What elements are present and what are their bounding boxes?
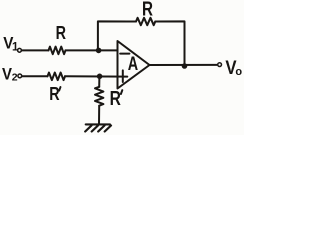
- svg-text:2: 2: [12, 71, 18, 83]
- svg-text:R: R: [110, 88, 122, 110]
- svg-text:R: R: [142, 0, 153, 20]
- svg-text:o: o: [235, 66, 242, 78]
- svg-text:R: R: [56, 23, 66, 43]
- svg-text:V: V: [2, 66, 12, 84]
- svg-text:R: R: [49, 84, 59, 104]
- svg-text:1: 1: [12, 41, 19, 53]
- svg-text:A: A: [128, 53, 138, 75]
